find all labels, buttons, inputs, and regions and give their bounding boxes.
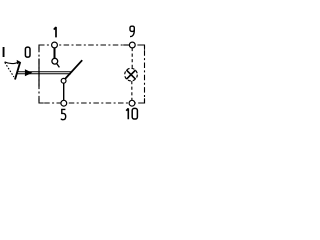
label 5 — [61, 109, 66, 119]
terminal 5 — [61, 100, 67, 106]
terminal 9 — [129, 42, 135, 48]
contact tick — [57, 63, 60, 67]
dashed wire lamp to terminal10 — [131, 81, 133, 100]
label 0 (position off) — [25, 47, 30, 57]
lamp X stroke 1 — [126, 70, 135, 79]
solid lead left of terminal 9 — [123, 44, 129, 46]
box corner top-left — [39, 45, 44, 50]
blade pivot circle — [61, 78, 66, 83]
lever position I dotted — [5, 63, 14, 78]
label 10 — [126, 108, 128, 119]
wire terminal1 to contact — [54, 48, 56, 59]
switch blade — [64, 60, 83, 80]
label 1 — [54, 27, 56, 38]
box corner bottom-left — [39, 98, 44, 103]
lever travel arc — [5, 62, 20, 64]
fixed contact circle — [52, 58, 58, 64]
linkage upper line — [17, 71, 73, 73]
wire pivot to terminal 5 — [63, 83, 65, 100]
linkage lower line — [16, 73, 71, 75]
terminal 10 — [129, 100, 135, 106]
dashed wire terminal9 to lamp — [131, 48, 133, 68]
arc arrowhead — [17, 60, 21, 64]
label 10 zero digit — [132, 108, 137, 119]
linkage arrow — [25, 69, 32, 76]
terminal 1 — [52, 42, 58, 48]
box corner bottom-right — [140, 98, 145, 103]
label I (position on) — [3, 47, 5, 57]
lamp L dashed circle — [125, 68, 138, 81]
lamp X stroke 2 — [126, 70, 135, 79]
label 9 — [130, 26, 134, 31]
box corner top-right — [140, 45, 145, 50]
lever solid (position 0) — [15, 62, 20, 80]
dashed enclosure box — [39, 45, 145, 103]
left border solid segment at linkage — [38, 59, 40, 87]
label 9 tail — [130, 29, 134, 36]
